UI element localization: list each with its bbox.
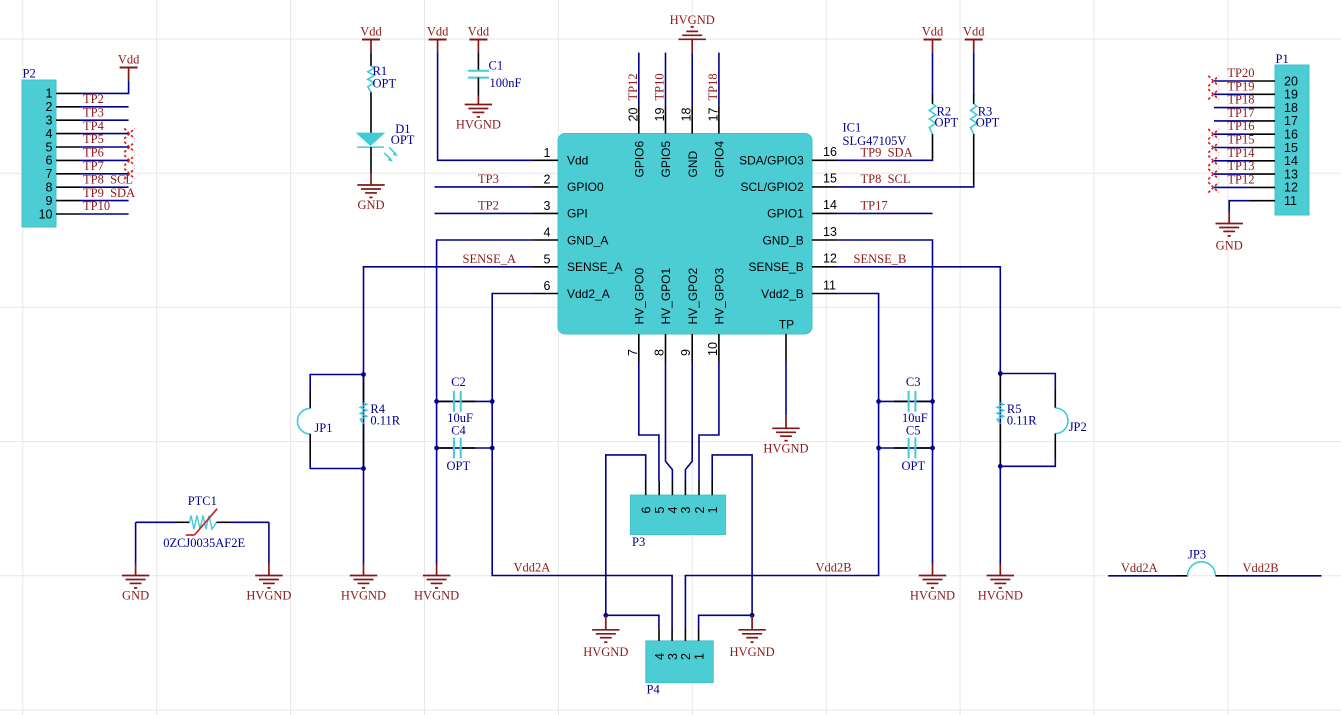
svg-text:PTC1: PTC1 <box>188 494 217 508</box>
svg-text:TP3: TP3 <box>478 172 499 186</box>
svg-text:12: 12 <box>823 252 837 266</box>
ground HVGND below PTC1 right <box>246 564 291 603</box>
wire/net TP12 at P1 <box>1214 172 1255 187</box>
wire/net TP14 at P1 <box>1214 146 1255 161</box>
no-ERC marks on P2 pins 4-7 <box>124 128 134 179</box>
svg-text:12: 12 <box>1284 181 1298 195</box>
svg-text:Vdd2A: Vdd2A <box>514 561 551 575</box>
connector P1 <box>1275 52 1309 215</box>
svg-text:8: 8 <box>653 349 667 356</box>
svg-text:Vdd: Vdd <box>427 25 449 39</box>
wire net Vdd2_A: IC1 pin6 down then right to P4 pin3 <box>492 294 672 629</box>
svg-text:Vdd: Vdd <box>922 25 944 39</box>
svg-text:14: 14 <box>1284 154 1298 168</box>
svg-text:TP8 SCL: TP8 SCL <box>861 172 911 186</box>
wire/net TP3 at IC1 pin2 <box>435 172 534 187</box>
svg-text:HV_GPO2: HV_GPO2 <box>686 267 700 324</box>
junction dots C2/C4 <box>434 399 494 450</box>
wire/net TP12 at IC1 pin20 <box>626 53 640 106</box>
svg-text:C5: C5 <box>906 424 921 438</box>
svg-text:GND_B: GND_B <box>762 233 803 247</box>
svg-text:TP16: TP16 <box>1227 119 1254 133</box>
wire/net TP7 at P2 <box>80 159 129 174</box>
ground HVGND on SENSE_B net <box>978 564 1023 603</box>
wire net GND_A: IC1 pin4 down to HVGND <box>437 240 533 564</box>
wire/net TP8 SCL at IC1 pin15 to R3 <box>837 172 974 187</box>
svg-text:SENSE_B: SENSE_B <box>748 260 803 274</box>
capacitor C3 10uF <box>879 375 933 425</box>
wire/net TP15 at P1 <box>1214 133 1255 148</box>
svg-text:8: 8 <box>46 181 53 195</box>
svg-text:OPT: OPT <box>391 133 415 147</box>
ground GND below P1 <box>1216 212 1243 253</box>
ground GND below PTC1 left <box>122 564 149 603</box>
IC1 left pin names <box>567 154 622 301</box>
svg-text:Vdd2B: Vdd2B <box>816 561 852 575</box>
svg-text:GPI: GPI <box>567 207 588 221</box>
power Vdd above R3 <box>963 25 985 53</box>
svg-text:TP17: TP17 <box>861 198 888 212</box>
wire/net TP4 at P2 <box>80 119 129 134</box>
wire/net TP5 at P2 <box>80 132 129 147</box>
svg-text:TP9 SDA: TP9 SDA <box>83 186 135 200</box>
svg-text:JP3: JP3 <box>1188 548 1206 562</box>
svg-text:TP14: TP14 <box>1227 146 1255 160</box>
svg-text:17: 17 <box>1284 114 1298 128</box>
P1 pin leads <box>1250 81 1275 201</box>
wire P1 pin11 to GND <box>1229 201 1250 212</box>
svg-text:GND: GND <box>357 198 384 212</box>
svg-text:0.11R: 0.11R <box>370 414 400 428</box>
svg-text:OPT: OPT <box>902 459 926 473</box>
wire/net TP16 at P1 <box>1214 119 1255 134</box>
power Vdd above R1 <box>360 25 382 53</box>
IC1 right pin leads and numbers 16-11 <box>812 145 837 293</box>
svg-text:19: 19 <box>1284 88 1298 102</box>
svg-text:HVGND: HVGND <box>910 589 955 603</box>
resistor R1 <box>368 52 397 133</box>
svg-text:5: 5 <box>653 507 667 514</box>
svg-text:HVGND: HVGND <box>763 441 808 455</box>
svg-text:13: 13 <box>823 225 837 239</box>
svg-text:6: 6 <box>46 154 53 168</box>
svg-text:JP2: JP2 <box>1069 420 1087 434</box>
power Vdd above R2 <box>922 25 944 53</box>
wire/net TP2 at P2 <box>80 92 129 107</box>
capacitor C2 10uF <box>437 375 493 425</box>
svg-text:1: 1 <box>706 507 720 514</box>
svg-text:P2: P2 <box>23 67 36 81</box>
P3 pin posts <box>646 481 713 495</box>
wire net Vdd2_B: IC1 pin11 down then left to P4 pin2 <box>685 294 878 629</box>
svg-text:OPT: OPT <box>447 459 471 473</box>
svg-text:HVGND: HVGND <box>246 589 291 603</box>
svg-text:OPT: OPT <box>373 76 397 90</box>
svg-text:11: 11 <box>823 278 836 292</box>
resistor R4 0.11R <box>360 375 401 469</box>
svg-text:15: 15 <box>1284 141 1298 155</box>
wire net HV_GPO2: IC1 pin9 to P3 pin3 <box>685 362 692 482</box>
wire net P3 pin1 / P4 pin1 / HVGND <box>699 455 755 629</box>
svg-text:GPIO5: GPIO5 <box>659 140 673 177</box>
svg-text:HVGND: HVGND <box>583 645 628 659</box>
jumper JP2 <box>1000 374 1086 467</box>
wire/net TP9SDA at P2 <box>80 186 135 201</box>
connector P4 <box>646 641 713 697</box>
svg-text:C2: C2 <box>451 375 466 389</box>
IC1 top pin leads and numbers 20-17 <box>626 106 720 134</box>
connector P3 <box>630 495 725 549</box>
IC1 right pin names <box>739 154 804 332</box>
resistor R3 OPT <box>971 52 1000 185</box>
svg-text:TP18: TP18 <box>1227 93 1254 107</box>
svg-text:100nF: 100nF <box>490 76 522 90</box>
svg-text:TP3: TP3 <box>83 105 104 119</box>
svg-text:HVGND: HVGND <box>670 13 715 27</box>
ground GND below D1 <box>357 173 384 212</box>
svg-text:OPT: OPT <box>935 116 959 130</box>
svg-text:P3: P3 <box>632 535 645 549</box>
wire IC1 pin18 to HVGND <box>691 53 693 106</box>
IC1 left pin leads and numbers 1-6 <box>533 146 558 294</box>
P4 pin posts <box>659 629 699 641</box>
svg-text:GND: GND <box>1216 239 1243 253</box>
wire/net TP17 at IC1 pin14 <box>837 198 933 213</box>
wire/net TP10 at IC1 pin19 <box>653 53 667 106</box>
svg-text:HV_GPO0: HV_GPO0 <box>633 267 647 324</box>
svg-text:OPT: OPT <box>976 116 1000 130</box>
resistor R2 OPT <box>929 52 958 158</box>
svg-text:HVGND: HVGND <box>978 589 1023 603</box>
svg-text:C1: C1 <box>489 59 504 73</box>
wire net HV_GPO3: IC1 pin10 to P3 pin2 <box>699 362 719 482</box>
svg-text:TP2: TP2 <box>478 198 499 212</box>
svg-text:10: 10 <box>39 207 53 221</box>
svg-text:TP4: TP4 <box>83 119 105 133</box>
wire/net TP10 at P2 <box>80 199 129 214</box>
jumper JP1 <box>297 375 363 469</box>
svg-text:18: 18 <box>1284 101 1298 115</box>
wire net HV_GPO1: IC1 pin8 to P3 pin4 <box>666 362 673 482</box>
svg-text:4: 4 <box>653 653 667 660</box>
ground HVGND on GND_B net <box>910 564 955 603</box>
svg-text:JP1: JP1 <box>314 421 332 435</box>
jumper JP3 <box>1175 548 1228 576</box>
wire PTC1 right to HVGND <box>268 522 270 563</box>
svg-text:SENSE_A: SENSE_A <box>463 252 516 266</box>
svg-text:TP20: TP20 <box>1227 66 1254 80</box>
svg-text:P4: P4 <box>647 683 661 697</box>
svg-text:20: 20 <box>626 108 640 122</box>
capacitor C1 100nF <box>468 52 522 95</box>
wire PTC1 left to GND <box>135 522 137 563</box>
IC1 bottom pin leads and numbers 7-10 <box>626 334 720 362</box>
svg-text:4: 4 <box>544 226 551 240</box>
svg-text:1: 1 <box>46 87 53 101</box>
svg-text:7: 7 <box>46 167 53 181</box>
IC1 bottom pin names (rotated) <box>633 267 727 324</box>
svg-text:4: 4 <box>46 127 53 141</box>
ground HVGND below TP pin <box>763 415 808 455</box>
ground HVGND on SENSE_A net <box>341 564 386 603</box>
junction dots on SENSE_A net <box>361 372 366 471</box>
wire IC1 TP pin down to HVGND <box>785 362 787 416</box>
svg-text:IC1: IC1 <box>843 121 862 135</box>
svg-text:SDA/GPIO3: SDA/GPIO3 <box>739 154 804 168</box>
ground HVGND right of P4 <box>730 615 775 659</box>
svg-text:2: 2 <box>679 653 693 660</box>
svg-text:2: 2 <box>693 507 707 514</box>
svg-text:TP9 SDA: TP9 SDA <box>861 145 913 159</box>
IC1 TP pin lead (bottom) <box>785 334 787 362</box>
svg-text:GND: GND <box>686 151 700 178</box>
svg-text:TP17: TP17 <box>1227 106 1254 120</box>
svg-text:SCL/GPIO2: SCL/GPIO2 <box>740 180 804 194</box>
svg-text:TP12: TP12 <box>1227 172 1254 186</box>
svg-text:11: 11 <box>1284 194 1297 208</box>
svg-text:17: 17 <box>706 108 720 122</box>
svg-text:3: 3 <box>46 114 53 128</box>
svg-text:GPIO0: GPIO0 <box>567 180 604 194</box>
IC1 top pin names (rotated) <box>633 140 727 177</box>
svg-text:0.11R: 0.11R <box>1007 414 1037 428</box>
LED D1 <box>357 122 415 173</box>
svg-text:5: 5 <box>544 252 551 266</box>
wire net Vdd to IC1 pin1 <box>438 52 533 160</box>
svg-text:7: 7 <box>626 349 640 356</box>
capacitor C5 OPT <box>879 424 933 473</box>
thermistor PTC1 0ZCJ0035AF2E <box>136 494 269 550</box>
ground HVGND on GND_A net <box>414 564 459 603</box>
ground HVGND left of P4 <box>583 615 628 659</box>
svg-text:HVGND: HVGND <box>341 589 386 603</box>
svg-text:GND_A: GND_A <box>567 233 608 247</box>
wire/net TP3 at P2 <box>80 105 129 120</box>
power Vdd above P2 pin 1 <box>118 53 140 81</box>
svg-text:9: 9 <box>46 194 53 208</box>
resistor R5 0.11R <box>997 374 1037 467</box>
svg-text:19: 19 <box>653 108 667 122</box>
wire/net TP18 at IC1 pin17 <box>706 53 720 106</box>
svg-text:TP8 SCL: TP8 SCL <box>83 172 133 186</box>
svg-text:3: 3 <box>679 507 693 514</box>
no-ERC marks on P1 pins <box>1208 76 1218 193</box>
svg-text:HVGND: HVGND <box>730 645 775 659</box>
svg-text:C4: C4 <box>451 424 466 438</box>
svg-text:GND: GND <box>122 589 149 603</box>
svg-text:Vdd: Vdd <box>963 25 985 39</box>
svg-text:TP19: TP19 <box>1227 79 1254 93</box>
svg-text:0ZCJ0035AF2E: 0ZCJ0035AF2E <box>163 536 245 550</box>
svg-text:HV_GPO1: HV_GPO1 <box>659 267 673 324</box>
svg-text:Vdd2_A: Vdd2_A <box>567 287 610 301</box>
power Vdd above C1 <box>468 25 490 53</box>
svg-text:10: 10 <box>706 342 720 356</box>
svg-text:16: 16 <box>823 145 837 159</box>
svg-text:13: 13 <box>1284 167 1298 181</box>
svg-text:TP6: TP6 <box>83 146 104 160</box>
svg-text:HV_GPO3: HV_GPO3 <box>713 267 727 324</box>
wire net SENSE_B: IC1 pin12 down to HVGND <box>837 252 1000 564</box>
svg-text:TP7: TP7 <box>83 159 104 173</box>
wire/net TP18 at P1 <box>1214 93 1255 108</box>
svg-text:GPIO4: GPIO4 <box>713 140 727 177</box>
svg-text:3: 3 <box>666 653 680 660</box>
svg-text:TP10: TP10 <box>653 73 667 100</box>
wire/net TP9 SDA at IC1 pin16 to R2 <box>837 145 933 160</box>
wire net SENSE_A: IC1 pin5 down to HVGND <box>364 252 534 564</box>
svg-text:1: 1 <box>692 653 706 660</box>
svg-text:3: 3 <box>544 199 551 213</box>
svg-text:5: 5 <box>46 140 53 154</box>
wire net GND_B: IC1 pin13 down to HVGND <box>837 240 933 564</box>
svg-text:TP: TP <box>779 318 794 332</box>
svg-text:TP15: TP15 <box>1227 133 1254 147</box>
svg-text:GPIO1: GPIO1 <box>767 207 804 221</box>
svg-text:Vdd2A: Vdd2A <box>1121 561 1158 575</box>
wire/net Vdd2B at JP3 <box>1228 561 1322 576</box>
wire/net TP8SCL at P2 <box>80 172 133 187</box>
svg-text:Vdd2_B: Vdd2_B <box>761 287 804 301</box>
ground HVGND below C1 <box>456 96 501 132</box>
svg-text:SENSE_B: SENSE_B <box>854 252 907 266</box>
IC IC1 SLG47105V body <box>558 121 906 334</box>
svg-text:HVGND: HVGND <box>414 589 459 603</box>
svg-text:Vdd: Vdd <box>118 53 140 67</box>
svg-text:Vdd2B: Vdd2B <box>1243 561 1279 575</box>
svg-text:TP13: TP13 <box>1227 159 1254 173</box>
svg-text:Vdd: Vdd <box>468 25 490 39</box>
svg-text:15: 15 <box>823 172 837 186</box>
svg-text:Vdd: Vdd <box>567 154 588 168</box>
connector P2 <box>22 67 56 228</box>
svg-text:9: 9 <box>679 349 693 356</box>
svg-text:14: 14 <box>823 198 837 212</box>
svg-text:2: 2 <box>544 172 551 186</box>
svg-text:4: 4 <box>666 507 680 514</box>
wire/net TP6 at P2 <box>80 146 129 161</box>
wire/net TP19 at P1 <box>1214 79 1255 94</box>
svg-text:6: 6 <box>544 279 551 293</box>
wire net P3 pin6 / P4 pin4 / HVGND <box>603 455 659 629</box>
svg-text:2: 2 <box>46 100 53 114</box>
svg-text:HVGND: HVGND <box>456 118 501 132</box>
capacitor C4 OPT <box>437 424 493 473</box>
wire/net Vdd2A at JP3 <box>1108 561 1175 576</box>
wire/net TP20 at P1 <box>1214 66 1255 81</box>
power Vdd above IC1 pin 1 <box>427 25 449 53</box>
wire P2 pin1 to Vdd <box>80 80 129 93</box>
svg-text:P1: P1 <box>1276 52 1289 66</box>
svg-text:TP12: TP12 <box>626 73 640 100</box>
svg-text:TP18: TP18 <box>706 73 720 100</box>
svg-text:TP10: TP10 <box>83 199 110 213</box>
wire/net TP17 at P1 <box>1214 106 1255 121</box>
svg-text:Vdd: Vdd <box>360 25 382 39</box>
svg-text:18: 18 <box>680 108 694 122</box>
svg-text:GPIO6: GPIO6 <box>633 140 647 177</box>
wire/net TP2 at IC1 pin3 <box>435 198 534 213</box>
wire net HV_GPO0: IC1 pin7 to P3 pin5 <box>639 362 659 482</box>
svg-text:20: 20 <box>1284 74 1298 88</box>
P2 pin leads <box>56 93 80 214</box>
svg-text:C3: C3 <box>906 375 921 389</box>
svg-text:6: 6 <box>640 507 654 514</box>
svg-text:16: 16 <box>1284 128 1298 142</box>
svg-text:1: 1 <box>544 146 551 160</box>
junction dots on SENSE_B net <box>998 371 1003 469</box>
svg-text:TP5: TP5 <box>83 132 104 146</box>
wire/net TP13 at P1 <box>1214 159 1255 174</box>
svg-text:TP2: TP2 <box>83 92 104 106</box>
junction dots C3/C5 <box>876 399 935 450</box>
ground HVGND above IC1 pin18 <box>670 13 715 53</box>
svg-text:SENSE_A: SENSE_A <box>567 260 622 274</box>
